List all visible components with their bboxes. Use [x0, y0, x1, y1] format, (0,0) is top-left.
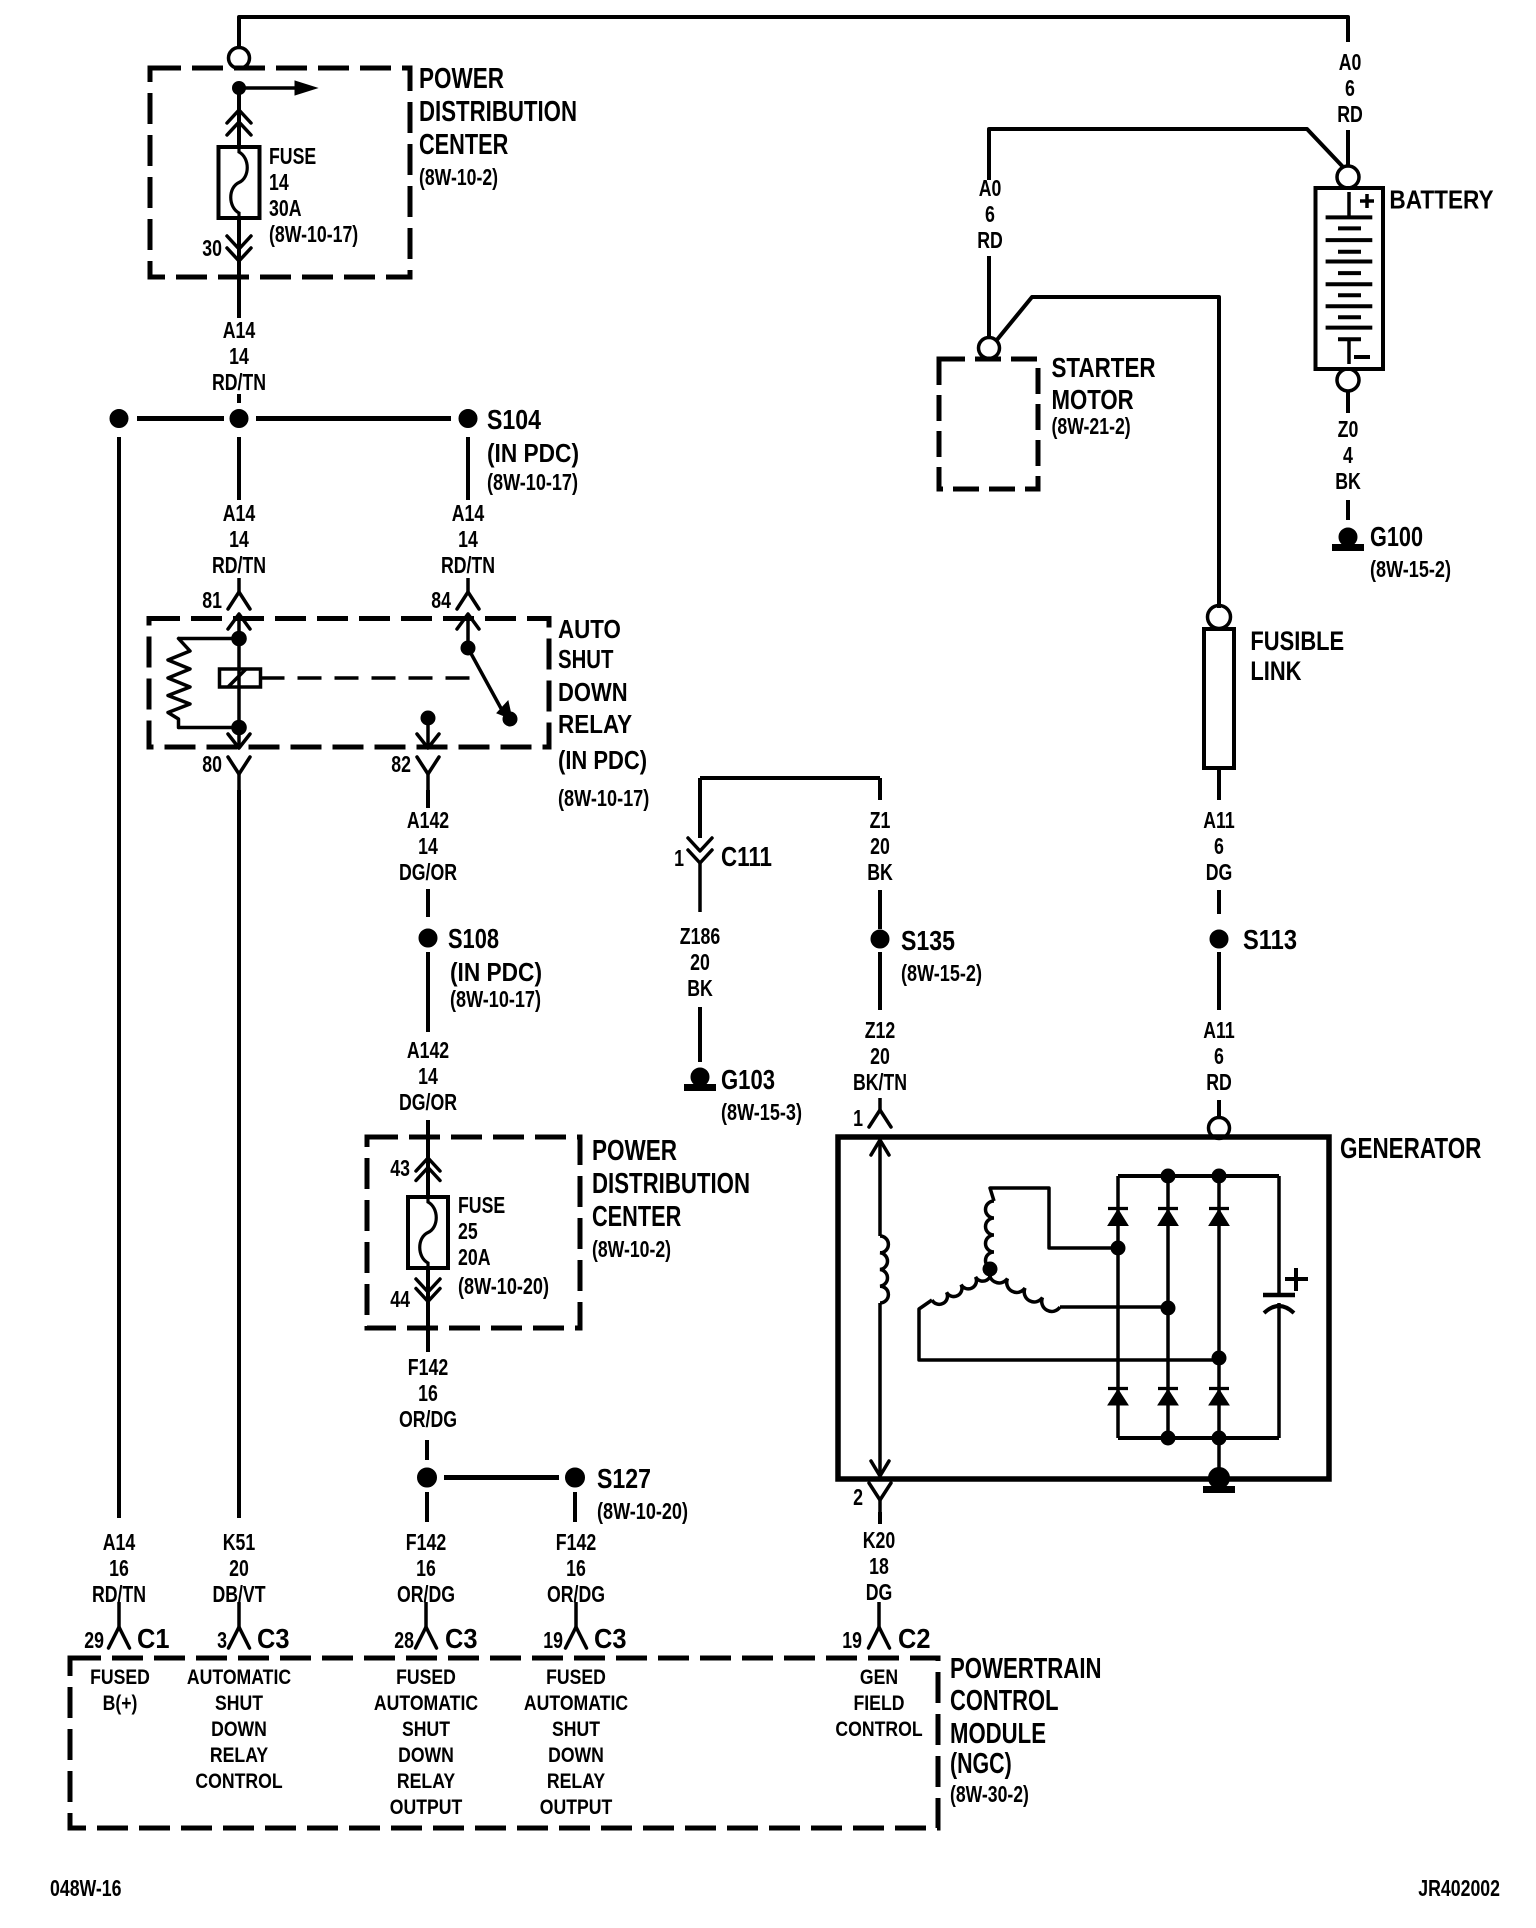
svg-text:DOWN: DOWN: [398, 1744, 454, 1767]
diode D3 upper: [1209, 1207, 1229, 1210]
pin arrow 82 out of relay: [426, 718, 430, 748]
svg-text:AUTOMATIC: AUTOMATIC: [374, 1692, 478, 1715]
dashed wire into S127: [425, 1440, 429, 1460]
diode D6 lower: [1209, 1387, 1229, 1390]
svg-text:DISTRIBUTION: DISTRIBUTION: [419, 96, 577, 128]
svg-text:16: 16: [416, 1555, 436, 1581]
fuse 25 element wave: [420, 1197, 437, 1268]
node relay common pin 84: [461, 641, 475, 655]
svg-text:RELAY: RELAY: [558, 709, 632, 739]
wire Z1 to S135: [878, 890, 882, 929]
svg-text:POWERTRAIN: POWERTRAIN: [950, 1653, 1102, 1685]
svg-text:(8W-10-2): (8W-10-2): [592, 1236, 671, 1262]
svg-text:20: 20: [229, 1555, 249, 1581]
svg-text:C3: C3: [445, 1623, 478, 1654]
svg-text:C3: C3: [594, 1623, 627, 1654]
svg-text:28: 28: [394, 1627, 414, 1653]
relay actuation dashed link: [261, 676, 479, 680]
svg-text:BK: BK: [867, 859, 893, 885]
connector fork C2 pin 19: [877, 1602, 881, 1627]
node relay output pin 82: [421, 711, 435, 725]
svg-text:AUTOMATIC: AUTOMATIC: [187, 1666, 291, 1689]
svg-text:A11: A11: [1203, 1017, 1235, 1043]
svg-text:A0: A0: [1339, 49, 1362, 75]
svg-text:STARTER: STARTER: [1052, 352, 1156, 383]
svg-text:A14: A14: [223, 500, 256, 526]
svg-text:(8W-10-17): (8W-10-17): [450, 986, 541, 1012]
relay coil K1 body: [220, 669, 261, 687]
wire A142 upper: [426, 790, 430, 808]
arrow feed to other circuits: [239, 86, 296, 90]
svg-text:AUTOMATIC: AUTOMATIC: [524, 1692, 628, 1715]
svg-text:A14: A14: [452, 500, 485, 526]
capacitor plate bottom curved: [1264, 1306, 1294, 1313]
svg-text:DOWN: DOWN: [558, 677, 628, 707]
stator winding phase A: [986, 1201, 995, 1269]
connector ring battery negative: [1337, 369, 1359, 391]
svg-text:6: 6: [1214, 1043, 1224, 1069]
svg-text:RELAY: RELAY: [210, 1744, 268, 1767]
node bottom rail junction col2: [1161, 1431, 1175, 1445]
node top rail junction col2: [1161, 1169, 1175, 1183]
connector fork C1 pin 29: [117, 1602, 121, 1627]
ground G100: [1339, 528, 1357, 546]
generator field wire lower: [878, 1303, 882, 1476]
svg-text:RELAY: RELAY: [547, 1770, 605, 1793]
pin chevrons fuse 25 pin 44: [416, 1279, 440, 1292]
svg-text:30A: 30A: [269, 195, 302, 221]
svg-text:C111: C111: [721, 841, 772, 872]
svg-text:(8W-15-2): (8W-15-2): [901, 960, 982, 986]
svg-text:FUSE: FUSE: [269, 143, 316, 169]
dashed wire into splice S104 bus: [237, 394, 241, 403]
wire bus at splice S104 left segment: [137, 416, 224, 421]
svg-text:RD/TN: RD/TN: [212, 369, 266, 395]
svg-text:048W-16: 048W-16: [50, 1875, 122, 1901]
svg-text:Z1: Z1: [870, 807, 891, 833]
wire A0 to battery lower segment: [1346, 130, 1350, 166]
svg-text:80: 80: [202, 751, 222, 777]
pin arrow generator pin 1: [871, 1140, 889, 1155]
svg-text:(8W-10-20): (8W-10-20): [597, 1498, 688, 1524]
svg-text:C2: C2: [898, 1623, 931, 1654]
node splice S113: [1210, 930, 1228, 948]
svg-text:18: 18: [869, 1553, 889, 1579]
connector fork generator pin 1: [878, 1098, 882, 1110]
svg-text:POWER: POWER: [592, 1135, 677, 1167]
fuse 14 30A body: [219, 147, 260, 218]
svg-text:S108: S108: [448, 923, 499, 954]
svg-text:14: 14: [458, 526, 478, 552]
connector fork pin 81: [237, 578, 241, 592]
capacitor polarity plus: [1285, 1277, 1308, 1281]
capacitor branch wire lower: [1277, 1303, 1281, 1438]
svg-text:RD/TN: RD/TN: [441, 552, 495, 578]
wire to relay resistor top: [179, 637, 240, 641]
svg-text:B(+): B(+): [103, 1692, 138, 1715]
svg-text:84: 84: [431, 587, 451, 613]
svg-text:SHUT: SHUT: [558, 644, 613, 674]
svg-text:POWER: POWER: [419, 63, 504, 95]
svg-text:(8W-30-2): (8W-30-2): [950, 1781, 1029, 1807]
svg-text:(8W-10-17): (8W-10-17): [487, 469, 578, 495]
node bottom rail junction col3: [1212, 1431, 1226, 1445]
svg-text:(8W-15-3): (8W-15-3): [721, 1099, 802, 1125]
wire A14 center branch to relay pin 81: [237, 437, 241, 500]
connector fork C3 pin 19: [574, 1602, 578, 1627]
svg-text:19: 19: [842, 1627, 862, 1653]
svg-text:14: 14: [229, 343, 249, 369]
pin arrow 84 into relay: [466, 614, 470, 648]
svg-text:(NGC): (NGC): [950, 1748, 1012, 1780]
svg-text:16: 16: [418, 1380, 438, 1406]
pin chevrons into fuse 14: [227, 110, 251, 123]
svg-text:FUSE: FUSE: [458, 1192, 505, 1218]
rectifier top rail: [1118, 1174, 1279, 1178]
svg-text:2: 2: [853, 1484, 863, 1510]
connector ring generator output: [1209, 1118, 1230, 1139]
resistor in relay: [168, 639, 190, 728]
generator field coil: [880, 1236, 888, 1303]
svg-text:20: 20: [690, 949, 710, 975]
svg-text:1: 1: [674, 845, 684, 871]
rectifier bottom rail: [1118, 1436, 1279, 1440]
svg-text:DG: DG: [866, 1579, 893, 1605]
generator field wire upper: [878, 1140, 882, 1236]
diode column 3 wire: [1217, 1176, 1221, 1479]
svg-text:(8W-21-2): (8W-21-2): [1052, 413, 1131, 439]
wire bus at splice S104 right segment: [256, 416, 451, 421]
wire A11 DG: [1217, 768, 1221, 800]
svg-text:20: 20: [870, 833, 890, 859]
stator winding phase C: [989, 1269, 1060, 1311]
diode D2 upper: [1158, 1207, 1178, 1210]
svg-text:14: 14: [418, 833, 438, 859]
svg-text:25: 25: [458, 1218, 478, 1244]
Power Distribution Center box 2: [367, 1137, 580, 1328]
wire A14 from S104 to relay pin 84: [466, 437, 470, 500]
svg-text:16: 16: [109, 1555, 129, 1581]
svg-text:FUSIBLE: FUSIBLE: [1250, 626, 1344, 656]
wire A142 lower: [426, 952, 430, 1032]
pin arrow generator pin 2: [871, 1461, 889, 1476]
pin arrow 80 out of relay: [237, 727, 241, 748]
Auto Shut Down relay box: [149, 619, 549, 748]
svg-text:A14: A14: [223, 317, 256, 343]
svg-text:Z186: Z186: [680, 923, 720, 949]
node splice S104: [459, 410, 477, 428]
node top rail junction col3: [1212, 1169, 1226, 1183]
connector fork C3 pin 28: [424, 1602, 428, 1627]
svg-text:OUTPUT: OUTPUT: [540, 1796, 613, 1819]
svg-text:(8W-15-2): (8W-15-2): [1370, 556, 1451, 582]
svg-text:S104: S104: [487, 404, 541, 435]
svg-text:29: 29: [84, 1627, 104, 1653]
svg-text:G100: G100: [1370, 521, 1423, 552]
svg-text:(8W-10-17): (8W-10-17): [558, 785, 649, 811]
wire relay coil: [237, 639, 241, 728]
svg-text:19: 19: [543, 1627, 563, 1653]
svg-text:DOWN: DOWN: [211, 1718, 267, 1741]
wire fuse 25 to pin 44: [426, 1268, 430, 1352]
connector ring battery positive: [1337, 166, 1359, 188]
diode column 2 wire: [1166, 1176, 1170, 1438]
wire A0 to starter motor: [987, 256, 991, 337]
svg-text:1: 1: [853, 1105, 863, 1131]
svg-text:43: 43: [390, 1155, 410, 1181]
svg-text:RELAY: RELAY: [397, 1770, 455, 1793]
svg-text:F142: F142: [406, 1529, 446, 1555]
connector fork pin 80: [228, 757, 250, 774]
fusible link body: [1204, 629, 1234, 768]
svg-text:6: 6: [1214, 833, 1224, 859]
svg-text:MOTOR: MOTOR: [1052, 384, 1134, 415]
stator winding center node: [983, 1262, 997, 1276]
svg-text:30: 30: [202, 235, 222, 261]
Generator box: [838, 1137, 1329, 1479]
svg-text:CONTROL: CONTROL: [195, 1770, 282, 1793]
svg-text:SHUT: SHUT: [402, 1718, 450, 1741]
wire phase B to diode column 3: [1212, 1358, 1219, 1362]
svg-text:A142: A142: [407, 807, 449, 833]
svg-text:BK: BK: [687, 975, 713, 1001]
dashed wire into S113: [1217, 890, 1221, 914]
svg-text:Z12: Z12: [865, 1017, 896, 1043]
svg-text:A11: A11: [1203, 807, 1235, 833]
wire K51 down to PCM: [237, 790, 241, 1518]
svg-text:(IN PDC): (IN PDC): [558, 745, 647, 775]
Starter Motor box: [939, 359, 1038, 489]
connector ring fusible link: [1208, 606, 1231, 629]
svg-text:82: 82: [391, 751, 411, 777]
battery internal plates: [1347, 192, 1351, 217]
svg-text:OUTPUT: OUTPUT: [390, 1796, 463, 1819]
relay switch blade: [468, 648, 503, 712]
svg-text:K20: K20: [863, 1527, 896, 1553]
svg-text:SHUT: SHUT: [552, 1718, 600, 1741]
svg-text:3: 3: [217, 1627, 227, 1653]
svg-text:16: 16: [566, 1555, 586, 1581]
svg-text:C3: C3: [257, 1623, 290, 1654]
svg-text:BK/TN: BK/TN: [853, 1069, 907, 1095]
diode D5 lower: [1158, 1387, 1178, 1390]
connector fork pin 84: [466, 578, 470, 592]
svg-text:20: 20: [870, 1043, 890, 1069]
svg-text:Z0: Z0: [1338, 416, 1359, 442]
wire resistor bottom: [179, 726, 240, 730]
svg-text:K51: K51: [223, 1529, 256, 1555]
svg-text:CENTER: CENTER: [592, 1201, 681, 1233]
svg-text:(IN PDC): (IN PDC): [487, 438, 579, 468]
svg-text:A0: A0: [979, 175, 1002, 201]
svg-text:6: 6: [985, 201, 995, 227]
wire A0 branch horizontal: [989, 129, 1344, 180]
svg-text:(IN PDC): (IN PDC): [450, 957, 542, 987]
wire Z1 overhead run: [698, 778, 702, 838]
svg-text:F142: F142: [408, 1354, 448, 1380]
svg-text:DOWN: DOWN: [548, 1744, 604, 1767]
wire from splice to fuse 14: [237, 94, 241, 147]
stator winding phase B: [932, 1269, 991, 1304]
wire A11 to generator: [1217, 1100, 1221, 1118]
svg-text:20A: 20A: [458, 1244, 491, 1270]
node splice at PDC B+: [233, 82, 246, 95]
wire Z0: [1346, 391, 1350, 413]
battery plus sign: [1360, 199, 1374, 203]
dashed wire into S108: [426, 889, 430, 917]
wire phase C to diode column 2: [1060, 1305, 1168, 1309]
pin chevrons fuse 25 pin 43: [416, 1158, 440, 1171]
svg-text:AUTO: AUTO: [558, 614, 621, 644]
svg-text:DG/OR: DG/OR: [399, 1089, 457, 1115]
node splice S108: [419, 929, 437, 947]
svg-text:BK: BK: [1335, 468, 1361, 494]
node junction left: [110, 410, 128, 428]
wire A14 below PDC1: [237, 277, 241, 318]
svg-text:BATTERY: BATTERY: [1389, 185, 1493, 215]
svg-text:S113: S113: [1243, 924, 1297, 955]
connector C111 pin 1 chevrons: [688, 838, 712, 851]
svg-text:G103: G103: [721, 1064, 775, 1095]
svg-text:RD: RD: [977, 227, 1003, 253]
diode column 1 wire: [1116, 1176, 1120, 1438]
pin arrow 81 into relay: [237, 614, 241, 639]
svg-text:14: 14: [269, 169, 289, 195]
battery minus sign: [1354, 355, 1370, 359]
wire A14 left branch down to PCM: [117, 437, 121, 1518]
svg-text:DISTRIBUTION: DISTRIBUTION: [592, 1168, 750, 1200]
wire A11 RD: [1217, 952, 1221, 1010]
dashed wire into G100: [1346, 500, 1350, 520]
connector fork C3 pin 3: [237, 1602, 241, 1627]
wire F142 right leg: [573, 1492, 577, 1522]
diode D4 lower: [1108, 1387, 1128, 1390]
svg-text:S127: S127: [597, 1463, 651, 1494]
svg-text:RD: RD: [1337, 101, 1363, 127]
svg-text:A142: A142: [407, 1037, 449, 1063]
node phase C to column 2: [1161, 1301, 1175, 1315]
svg-text:DG/OR: DG/OR: [399, 859, 457, 885]
svg-text:FUSED: FUSED: [90, 1666, 150, 1689]
wire starter to fusible link: [996, 297, 1219, 608]
node relay coil bottom: [232, 720, 247, 735]
connector ring starter motor: [979, 338, 1000, 359]
generator internal ground: [1209, 1468, 1230, 1489]
node phase A to column 1: [1111, 1241, 1125, 1255]
node junction F142: [418, 1468, 437, 1487]
svg-text:GEN: GEN: [860, 1666, 898, 1689]
svg-text:14: 14: [418, 1063, 438, 1089]
svg-text:FIELD: FIELD: [854, 1692, 905, 1715]
svg-text:14: 14: [229, 526, 249, 552]
svg-text:(8W-10-2): (8W-10-2): [419, 164, 498, 190]
svg-text:JR402002: JR402002: [1418, 1875, 1500, 1901]
svg-text:6: 6: [1345, 75, 1355, 101]
node phase B to column 3: [1212, 1351, 1226, 1365]
node relay coil top: [232, 631, 247, 646]
diode D1 upper: [1108, 1207, 1128, 1210]
svg-text:LINK: LINK: [1250, 656, 1301, 686]
connector fork generator pin 2: [869, 1483, 891, 1500]
node splice S127: [566, 1468, 585, 1487]
Powertrain Control Module box: [70, 1658, 938, 1828]
svg-text:S135: S135: [901, 925, 955, 956]
wire K20: [878, 1512, 882, 1524]
svg-text:SHUT: SHUT: [215, 1692, 263, 1715]
capacitor branch wire upper: [1277, 1176, 1281, 1295]
svg-text:CONTROL: CONTROL: [950, 1685, 1059, 1717]
svg-text:A14: A14: [103, 1529, 136, 1555]
svg-text:RD/TN: RD/TN: [212, 552, 266, 578]
wire fuse 14 to pin 30: [237, 218, 241, 277]
fuse 25 20A body: [408, 1197, 448, 1268]
svg-text:C1: C1: [137, 1623, 170, 1654]
fuse 14 element wave: [231, 147, 248, 218]
svg-text:CENTER: CENTER: [419, 129, 508, 161]
svg-text:F142: F142: [556, 1529, 596, 1555]
svg-text:DG: DG: [1206, 859, 1233, 885]
capacitor plate top: [1263, 1293, 1295, 1298]
connector ring at PDC B+ terminal: [229, 48, 250, 69]
wire A0 feed from PDC to battery (top bus): [239, 17, 1348, 47]
svg-text:CONTROL: CONTROL: [835, 1718, 922, 1741]
svg-text:RD: RD: [1206, 1069, 1232, 1095]
svg-text:4: 4: [1343, 442, 1353, 468]
wire F142 left leg: [425, 1492, 429, 1522]
wire into PDC2: [426, 1120, 430, 1197]
svg-text:81: 81: [202, 587, 222, 613]
node relay switch throw: [503, 712, 517, 726]
wire Z12: [878, 952, 882, 1010]
svg-text:(8W-10-20): (8W-10-20): [458, 1273, 549, 1299]
Power Distribution Center box 1: [150, 68, 410, 277]
svg-text:OR/DG: OR/DG: [399, 1406, 457, 1432]
wire Z186 to ground: [698, 1007, 702, 1062]
svg-text:(8W-10-17): (8W-10-17): [269, 221, 358, 247]
svg-text:MODULE: MODULE: [950, 1718, 1046, 1750]
svg-text:44: 44: [390, 1286, 410, 1312]
connector fork pin 82: [417, 757, 439, 774]
svg-text:FUSED: FUSED: [546, 1666, 606, 1689]
battery body: [1316, 188, 1384, 369]
wire bus S127: [444, 1475, 559, 1480]
node splice S135: [871, 930, 889, 948]
svg-text:GENERATOR: GENERATOR: [1340, 1133, 1481, 1165]
ground G103: [691, 1068, 709, 1086]
pin chevrons out of fuse 14 pin 30: [227, 236, 251, 249]
node junction center: [230, 410, 248, 428]
svg-text:FUSED: FUSED: [396, 1666, 456, 1689]
